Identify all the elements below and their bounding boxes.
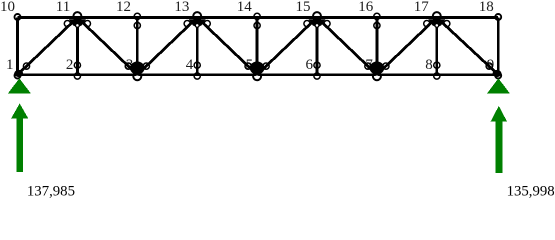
member 5-15 end circle at 15 [304, 21, 310, 27]
vertical member 8-17 [435, 18, 438, 75]
member 5-14 lower end circle [254, 62, 260, 68]
diagonal member 7-17 [377, 18, 437, 75]
member 7-17 end circle at 7 [383, 63, 389, 69]
pin circle node 13 [193, 12, 201, 20]
member 3-12 lower end circle [134, 62, 140, 68]
pin circle node 10 [15, 14, 21, 20]
joint blob node 9 [493, 70, 502, 77]
pin circle node 2 [74, 73, 80, 79]
pin circle node 14 [254, 13, 260, 19]
diagonal member 3-13 [137, 18, 197, 75]
top chord member 10-18 [18, 16, 499, 19]
member 17-9 end circle at 17 [444, 21, 450, 27]
svg-text:137,985: 137,985 [27, 183, 75, 199]
member 6-15 lower end circle [314, 62, 320, 68]
pin circle node 11 [73, 12, 81, 20]
pin circle node 6 [314, 73, 320, 79]
diagonal member 17-9 [437, 18, 498, 75]
pin circle node 17 [433, 12, 441, 20]
member 13-5 end circle at 13 [204, 21, 210, 27]
pin circle node 15 [313, 12, 321, 20]
pin circle node 1 [15, 73, 21, 79]
svg-text:15: 15 [296, 0, 311, 15]
member 8-17 lower end circle [434, 62, 440, 68]
member 7-16 upper end circle [374, 22, 380, 28]
member 8-17 upper end circle [435, 24, 439, 28]
member 11-3 end circle at 11 [84, 21, 90, 27]
svg-text:17: 17 [414, 0, 430, 15]
vertical member 7-16 [375, 18, 378, 75]
member 3-13 end circle at 13 [184, 21, 190, 27]
vertical member 6-15 [316, 18, 319, 75]
vertical member 4-13 [196, 18, 199, 75]
member 3-12 upper end circle [134, 22, 140, 28]
vertical member 3-12 [136, 18, 139, 75]
joint blob node 7 [370, 62, 385, 75]
svg-text:2: 2 [66, 57, 74, 73]
member 6-15 upper end circle [315, 24, 319, 28]
pin circle node 7 [375, 76, 379, 80]
pin support at node 1 [8, 78, 31, 93]
pin circle node 3 [135, 76, 139, 80]
member 2-11 lower end circle [74, 62, 80, 68]
member 1-11 end circle at 1 [23, 63, 29, 69]
vertical member 1-10 [16, 18, 19, 75]
bottom chord member 1-9 [18, 73, 499, 76]
svg-text:1: 1 [6, 57, 14, 73]
vertical member 5-14 [256, 18, 259, 75]
member 15-7 end circle at 7 [365, 63, 371, 69]
pin circle node 16 [374, 13, 380, 19]
member 7-16 lower end circle [374, 62, 380, 68]
diagonal member 11-3 [77, 18, 137, 75]
member 15-7 end circle at 15 [324, 21, 330, 27]
joint blob node 3 [130, 62, 145, 75]
joint blob node 5 [250, 62, 265, 75]
member 5-15 end circle at 5 [263, 63, 269, 69]
pin circle node 8 [434, 73, 440, 79]
pin circle node 5 [255, 76, 259, 80]
reaction force arrow at node 9 [491, 106, 508, 173]
diagonal member 5-15 [257, 18, 317, 75]
reaction force arrow at node 1 [11, 103, 28, 172]
svg-text:16: 16 [358, 0, 374, 15]
diagonal member 1-11 [18, 18, 78, 75]
svg-text:13: 13 [174, 0, 189, 15]
vertical member 2-11 [76, 18, 79, 75]
member 5-14 upper end circle [254, 22, 260, 28]
joint blob node 11 [69, 19, 86, 27]
diagonal member 15-7 [317, 18, 377, 75]
pin circle node 9 [495, 73, 501, 79]
joint blob node 17 [428, 19, 445, 27]
pin circle node 12 [134, 13, 140, 19]
svg-text:11: 11 [56, 0, 70, 15]
pin support at node 9 [487, 78, 510, 93]
svg-text:8: 8 [425, 57, 433, 73]
member 1-11 end circle at 11 [64, 21, 70, 27]
svg-text:4: 4 [186, 57, 194, 73]
svg-text:12: 12 [116, 0, 131, 15]
svg-text:18: 18 [479, 0, 494, 15]
member 2-11 upper end circle [76, 24, 80, 28]
member 3-13 end circle at 3 [143, 63, 149, 69]
pin circle node 4 [194, 73, 200, 79]
member 11-3 end circle at 3 [125, 63, 131, 69]
pin circle node 18 [495, 14, 501, 20]
svg-text:135,998: 135,998 [507, 183, 555, 199]
joint blob node 15 [308, 19, 325, 27]
joint blob node 1 [14, 70, 23, 77]
diagonal member 13-5 [197, 18, 257, 75]
member 7-17 end circle at 17 [424, 21, 430, 27]
member 4-13 upper end circle [195, 24, 199, 28]
member 4-13 lower end circle [194, 62, 200, 68]
joint blob node 13 [189, 19, 206, 27]
svg-text:6: 6 [306, 57, 314, 73]
member 17-9 end circle at 9 [486, 63, 492, 69]
svg-text:14: 14 [237, 0, 253, 15]
vertical member 9-18 [497, 18, 500, 75]
svg-text:10: 10 [0, 0, 15, 15]
member 13-5 end circle at 5 [245, 63, 251, 69]
